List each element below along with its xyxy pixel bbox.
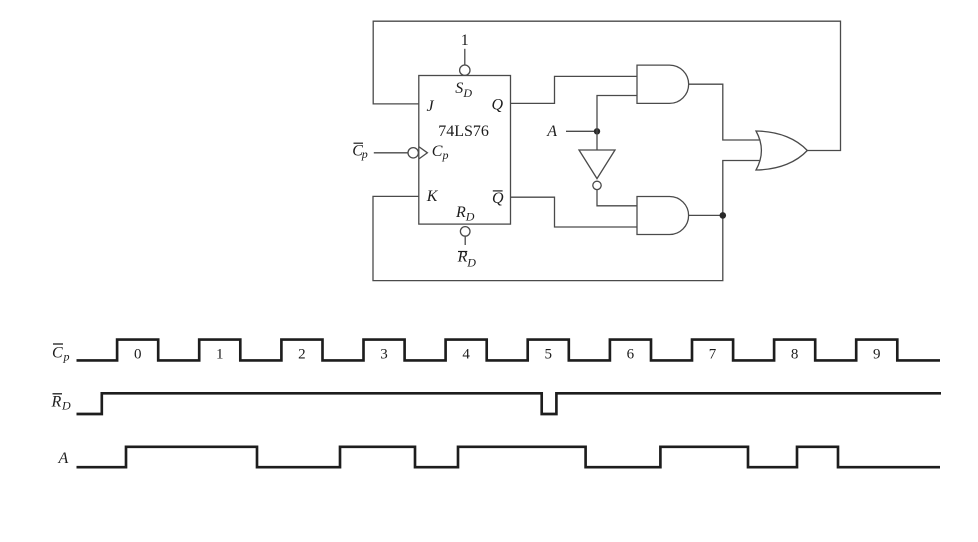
pin SD bubble [460,65,470,75]
wire bottom AND output to junction [689,214,723,216]
wire K feedback loop (junction to K) [373,161,761,281]
svg-text:5: 5 [544,347,552,363]
inverter U2 triangle [579,150,615,179]
svg-text:p: p [63,350,70,364]
wire inverter output to bottom AND input [597,190,637,206]
svg-text:A: A [58,450,69,467]
svg-text:1: 1 [461,32,469,49]
node junction dot at bottom AND output [720,212,727,219]
svg-text:p: p [361,147,368,161]
svg-text:3: 3 [380,347,388,363]
wire A input [566,130,597,132]
wire Cpbar input [374,152,409,154]
pin Cp clock wedge [419,147,428,159]
pin label RD [455,204,475,224]
svg-text:Q: Q [492,190,504,207]
svg-text:6: 6 [627,347,635,363]
svg-text:p: p [442,148,449,162]
svg-text:1: 1 [216,347,224,363]
label RDbar (timing) [51,394,72,413]
wire J feedback loop (OR output to J) [373,21,840,150]
svg-text:R: R [51,394,62,411]
svg-text:Q: Q [492,96,504,113]
wire A to top AND input [597,96,637,151]
svg-text:A: A [546,123,557,140]
svg-text:D: D [61,399,71,413]
pin label Cp (inside) [432,143,449,162]
svg-text:D: D [465,210,475,224]
svg-text:C: C [432,143,443,160]
wire Qbar to bottom AND input [511,197,638,227]
pin label SD [455,80,472,100]
OR gate G3 [756,131,807,170]
wire RD bubble to RDbar label [464,237,466,245]
label Cpbar input [352,142,368,161]
svg-text:C: C [52,345,63,362]
svg-text:2: 2 [298,347,306,363]
svg-text:8: 8 [791,347,799,363]
inverter U2 bubble [593,181,601,189]
wire Q to top AND input [511,76,638,103]
wire top AND output to OR input [689,84,761,140]
label Cpbar (timing) [52,344,70,364]
waveform Cpbar clock [77,340,941,361]
flip-flop U1 74LS76 body [419,76,511,225]
svg-text:K: K [426,188,439,205]
svg-text:74LS76: 74LS76 [438,123,489,140]
AND gate G1 (top) [637,65,689,103]
svg-text:7: 7 [709,347,717,363]
svg-text:J: J [427,98,435,115]
waveform A [77,447,941,467]
svg-text:0: 0 [134,347,142,363]
pin label Qbar [492,190,504,207]
AND gate G2 (bottom) [637,197,689,235]
label clock pulse numbers 0-9 [134,347,881,363]
label RDbar input [457,249,477,270]
node A junction dot [594,128,600,134]
pin RD bubble [460,227,470,237]
svg-text:4: 4 [462,347,470,363]
wire 1 to SD bubble [464,49,466,65]
svg-text:D: D [462,86,472,100]
pin Cp bubble [408,148,418,158]
waveform RDbar [77,393,942,414]
svg-text:D: D [466,256,476,270]
svg-text:S: S [455,80,463,97]
svg-text:9: 9 [873,347,881,363]
svg-text:R: R [455,204,466,221]
